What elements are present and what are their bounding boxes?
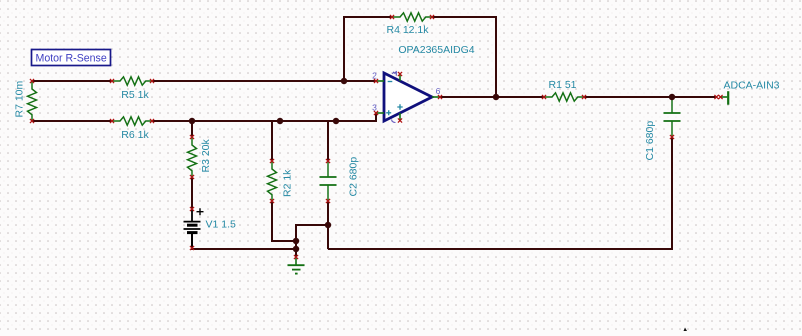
wire V1 minus to ground stem xyxy=(192,233,296,249)
svg-text:R1 51: R1 51 xyxy=(548,79,576,91)
wire feedback loop right vertical xyxy=(432,17,496,97)
node: junction on row E near R2 xyxy=(277,118,284,125)
resistor R3 xyxy=(188,135,197,179)
svg-text:3: 3 xyxy=(372,102,377,112)
node: V1 junction on ground stem xyxy=(293,246,300,253)
svg-text:2: 2 xyxy=(372,70,377,80)
wire C2 bottom to node xyxy=(327,202,329,249)
wire R3 top lead xyxy=(191,121,193,136)
node: R2 junction on ground stem xyxy=(293,238,300,245)
svg-text:Motor R-Sense: Motor R-Sense xyxy=(36,53,107,65)
svg-text:C2 680p: C2 680p xyxy=(348,157,360,197)
cursor mark at bottom edge xyxy=(684,328,688,332)
wire bottom rail to C1 xyxy=(328,137,672,249)
ground xyxy=(288,255,305,274)
wire R2 top lead xyxy=(271,121,273,160)
port ADCA-AIN3 xyxy=(714,91,728,105)
resistor R6 xyxy=(110,117,154,125)
wire row E: R7 bottom to R6 left xyxy=(32,120,112,122)
resistor R2 xyxy=(268,159,277,203)
battery V1 xyxy=(184,207,204,250)
wire R3 to V1 xyxy=(191,178,193,209)
node: R3 junction on row E xyxy=(189,118,196,125)
svg-text:R5 1k: R5 1k xyxy=(121,89,149,101)
node: C1 junction on output row xyxy=(669,94,676,101)
op-amp U1 xyxy=(374,71,442,123)
wire node to ground stem xyxy=(296,225,328,257)
wire row E: R6 right to op-amp pin3 jog xyxy=(152,113,376,121)
svg-text:V1 1.5: V1 1.5 xyxy=(206,219,237,231)
node: junction on row E near C2 xyxy=(333,118,340,125)
resistor R4 xyxy=(390,13,434,21)
capacitor C2 xyxy=(320,159,337,203)
resistor R7 xyxy=(28,79,37,123)
svg-text:R6 1k: R6 1k xyxy=(121,129,149,141)
wire output row: R1 to ADCA port xyxy=(584,96,717,98)
svg-text:C1 680p: C1 680p xyxy=(644,121,656,161)
svg-text:R2 1k: R2 1k xyxy=(282,169,294,197)
capacitor C1 xyxy=(664,98,681,139)
svg-text:6: 6 xyxy=(436,86,441,96)
svg-text:OPA2365AIDG4: OPA2365AIDG4 xyxy=(398,44,474,56)
wire R2 bottom to ground stem xyxy=(272,202,296,241)
svg-text:R4 12.1k: R4 12.1k xyxy=(386,24,429,36)
svg-text:R7 10m: R7 10m xyxy=(14,80,26,117)
svg-text:R3 20k: R3 20k xyxy=(200,138,212,172)
resistor R1 xyxy=(542,93,586,101)
resistor R5 xyxy=(110,77,154,85)
text box Motor R-Sense xyxy=(32,50,111,66)
node: feedback junction on row B xyxy=(341,78,348,85)
wire output row: op-amp pin6 to R1 xyxy=(440,96,544,98)
wire row B: R5 right to op-amp pin2 xyxy=(152,80,376,82)
node: C2 bottom junction xyxy=(325,222,332,229)
wire row B: R7 top to R5 left xyxy=(32,80,112,82)
svg-text:ADCA-AIN3: ADCA-AIN3 xyxy=(723,80,779,92)
node: feedback junction on output row xyxy=(493,94,500,101)
wire C2 top lead xyxy=(327,121,329,160)
wire feedback loop left vertical xyxy=(344,17,392,81)
